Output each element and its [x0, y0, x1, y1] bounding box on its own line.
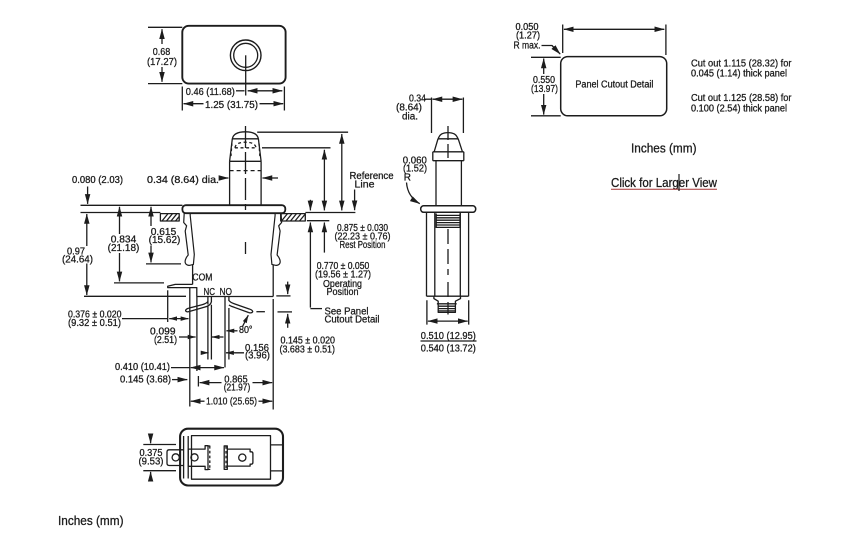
angle 80 left arrow: [226, 330, 237, 332]
svg-text:Inches (mm): Inches (mm): [631, 141, 697, 156]
bottom view: terminal 2 plate: [227, 449, 253, 466]
dimension 1.25 arrows: [184, 103, 204, 105]
side view: plunger dome chord: [232, 138, 258, 140]
panel thickness down arrow: [309, 200, 311, 211]
panel cutout detail: rounded rectangle: [561, 57, 667, 116]
svg-text:R: R: [404, 173, 411, 184]
snap-in wing right (mirror): [271, 213, 282, 265]
front view: spring rib band: [436, 214, 460, 228]
svg-text:Line: Line: [355, 180, 375, 191]
operating position lower up arrow: [323, 223, 325, 253]
dimension 0.410 leader and arrows: [171, 367, 190, 369]
front view: collar: [433, 152, 464, 161]
dimension 0.97 bottom extension: [84, 295, 186, 297]
panel hatch right outline: [281, 214, 306, 221]
side view: plunger shoulder line: [230, 160, 262, 162]
dimension 0.97 arrows: [86, 214, 88, 246]
COM tab edge v1: [189, 288, 191, 407]
svg-text:0.46 (11.68): 0.46 (11.68): [186, 87, 235, 98]
operating position top line: [262, 147, 331, 149]
dimension 0.834 bottom extension: [114, 282, 164, 284]
dimension 1.25/0.46 extension lines: [182, 87, 284, 111]
NO tab left edge v5: [224, 297, 226, 368]
front view: bottom step: [434, 296, 461, 312]
dimension 0.865 arrows: [200, 382, 222, 384]
svg-text:0.080 (2.03): 0.080 (2.03): [72, 175, 123, 186]
top view: button outer circle: [230, 40, 261, 71]
dimension 0.145 +/- 0.020 arrows: [287, 282, 289, 295]
panel cutout: 0.550 arrows: [543, 59, 545, 75]
svg-text:(9.32 ± 0.51): (9.32 ± 0.51): [68, 318, 121, 329]
front view: dia extension lines: [432, 98, 464, 134]
text caret: [678, 174, 680, 191]
dimension 0.46 leader and arrows: [236, 90, 245, 92]
angle 80 leader arrow: [243, 315, 249, 326]
side view: plunger centerline: [245, 126, 247, 210]
panel hatch right lines: [282, 214, 306, 221]
side view: dashed operating dome cap: [235, 142, 256, 148]
reference line extension left: [81, 212, 161, 214]
svg-text:0.510 (12.95): 0.510 (12.95): [421, 331, 476, 342]
side view: dashed operating dome chord: [235, 147, 256, 149]
bottom view: terminal 1 teeth: [209, 446, 211, 469]
side view: dashed operating sides: [231, 144, 260, 158]
svg-text:(17.27): (17.27): [147, 57, 177, 68]
svg-text:Click for Larger View: Click for Larger View: [611, 175, 718, 190]
bottom view: terminal 2 hole: [239, 454, 246, 461]
right lower extension line: [272, 299, 274, 410]
NC terminal exit: [208, 297, 212, 305]
top view: button inner circle: [234, 43, 258, 67]
svg-text:0.540 (13.72): 0.540 (13.72): [421, 344, 476, 355]
dimension 0.770 operating position arrows: [323, 150, 325, 211]
svg-text:(3.683 ± 0.51): (3.683 ± 0.51): [280, 345, 336, 356]
COM lug: [168, 284, 197, 296]
bottom view: terminal 1 hole: [191, 454, 198, 461]
svg-text:0.145 (3.68): 0.145 (3.68): [120, 375, 171, 386]
panel hatch left outline: [160, 214, 179, 221]
dimension 0.875 rest position arrows: [341, 134, 343, 210]
svg-text:(2.51): (2.51): [154, 335, 177, 346]
svg-text:NO: NO: [220, 287, 233, 298]
svg-text:(13.97): (13.97): [531, 84, 558, 95]
side view: bezel flange: [182, 205, 285, 213]
front view: flange: [421, 206, 476, 213]
front view: centerline lower: [447, 229, 449, 315]
dimension 0.68 extension lines: [148, 27, 182, 83]
NC terminal tip: [186, 308, 190, 312]
bottom view: terminal 2 teeth: [225, 446, 227, 469]
bottom view: inner rectangle: [192, 436, 271, 480]
panel cutout: width extension lines: [563, 25, 666, 56]
svg-text:Position: Position: [327, 287, 359, 298]
front view: plunger dome sides: [434, 139, 462, 152]
side view: dashed operating shoulder: [230, 170, 262, 172]
COM tab edge v2: [196, 297, 198, 372]
body left edge: [192, 265, 194, 285]
NO terminal arm top: [229, 301, 250, 310]
svg-text:(15.62): (15.62): [149, 235, 181, 246]
front view: centerline upper: [447, 126, 449, 160]
svg-text:NC: NC: [204, 287, 216, 298]
bottom view: 0.375 extension lines: [143, 445, 176, 471]
svg-text:Rest Position: Rest Position: [340, 240, 386, 251]
svg-text:0.34 (8.64) dia.: 0.34 (8.64) dia.: [147, 175, 219, 186]
dimension 0.615 bottom extension: [146, 263, 181, 265]
bottom view: terminal 2 left section: [224, 446, 227, 470]
dimension 0.376 leader: [122, 318, 168, 320]
NC terminal arm top: [189, 302, 208, 309]
side view: plunger taper sides: [230, 139, 262, 162]
reference line right: [305, 212, 355, 214]
reference line label arrow: [354, 190, 356, 211]
body bottom extension right: [276, 295, 290, 297]
svg-text:Inches (mm): Inches (mm): [58, 513, 124, 528]
front view: plunger dome chord: [438, 138, 458, 140]
svg-text:dia.: dia.: [402, 112, 418, 123]
front view: body outer walls: [427, 212, 469, 296]
body bottom: [197, 296, 273, 298]
front view: 0.510 extension lines: [427, 300, 469, 324]
svg-text:80°: 80°: [239, 325, 253, 336]
dimension 0.615 arrows: [150, 207, 152, 226]
0.865 left extension: [197, 376, 199, 387]
link underline: [611, 188, 717, 190]
svg-text:(3.96): (3.96): [245, 351, 270, 362]
bottom view: outer housing: [180, 429, 283, 486]
NO terminal tip: [249, 309, 253, 313]
panel cutout: width dimension line: [564, 28, 664, 30]
svg-text:Panel Cutout Detail: Panel Cutout Detail: [575, 80, 653, 91]
dimension 0.376 arrows: [169, 318, 188, 320]
see panel leader elbow: [310, 308, 322, 310]
side view: body centerline segment: [245, 242, 247, 254]
bottom view: 0.375 arrows: [150, 434, 152, 444]
front view: plunger dome cap: [438, 133, 458, 140]
body right edge: [272, 265, 274, 297]
svg-text:(24.64): (24.64): [62, 255, 93, 266]
panel hatch left lines: [162, 214, 179, 221]
front view: 0.060 R leader arrow: [407, 183, 420, 204]
svg-text:(21.18): (21.18): [108, 243, 140, 254]
NO tab right edge v6: [228, 308, 230, 360]
front view: body inner walls: [435, 212, 461, 296]
front view: body bottom: [427, 295, 469, 297]
top view: button centerline: [245, 55, 247, 95]
bottom view: hinge fold lines: [184, 436, 189, 479]
svg-text:R max.: R max.: [514, 41, 541, 52]
bottom view: terminal 1 plate: [188, 446, 208, 470]
svg-text:0.045 (1.14) thick panel: 0.045 (1.14) thick panel: [691, 69, 787, 80]
lug tip extension line: [167, 290, 169, 322]
dimension 0.68 arrows: [161, 29, 163, 44]
dimension 0.34 dia arrows: [222, 177, 229, 179]
top view: switch housing outline: [182, 26, 285, 84]
front view: shaft sides: [436, 161, 461, 206]
dimension 0.099 leader and arrows: [179, 336, 183, 338]
NO terminal exit: [228, 297, 230, 302]
dimension 0.834 arrows: [119, 207, 121, 234]
NO tip dash continuation: [256, 311, 265, 313]
bottom view: COM outer tab: [167, 450, 183, 466]
front view: dia dimension line: [424, 98, 432, 100]
bottom view: right connecting lines: [271, 445, 284, 471]
dimension 0.080 arrow: [87, 187, 89, 204]
svg-text:Cutout Detail: Cutout Detail: [325, 315, 380, 326]
snap-in wing left: [184, 213, 195, 265]
NC terminal arm bottom: [189, 302, 211, 312]
front view: bottom step ridges: [437, 304, 457, 311]
NC tab below: [208, 305, 212, 360]
dimension 0.156 arrows: [202, 352, 209, 354]
svg-text:(9.53): (9.53): [139, 457, 164, 468]
panel bottom extension right: [307, 220, 329, 222]
svg-text:1.25 (31.75): 1.25 (31.75): [205, 100, 258, 111]
NO terminal arm bottom: [229, 305, 249, 313]
panel cutout: 0.550 extension lines: [531, 57, 561, 116]
svg-text:0.100 (2.54) thick panel: 0.100 (2.54) thick panel: [691, 104, 787, 115]
front view: fraction rule: [421, 340, 477, 342]
side view: plunger dome cap: [232, 132, 258, 139]
svg-text:COM: COM: [192, 273, 212, 284]
see panel leader up arrow: [309, 223, 311, 308]
svg-text:1.010 (25.65): 1.010 (25.65): [206, 397, 257, 408]
svg-text:0.410 (10.41): 0.410 (10.41): [115, 362, 170, 373]
rest position top line: [257, 131, 348, 133]
side view: plunger shaft sides: [230, 161, 262, 205]
svg-text:(21.97): (21.97): [224, 383, 251, 394]
panel cutout: R max leader: [542, 46, 561, 55]
bottom view: COM tab hole: [172, 454, 179, 461]
dimension 1.010 arrows: [191, 400, 205, 402]
bezel top extension line left: [81, 204, 183, 206]
svg-text:Cut out 1.125 (28.58) for: Cut out 1.125 (28.58) for: [691, 93, 792, 104]
terminal bottom extension right: [278, 311, 293, 313]
dimension 0.145 (3.68) arrow: [172, 379, 187, 381]
front view: 0.510/0.540 dimension arrows: [428, 320, 468, 322]
